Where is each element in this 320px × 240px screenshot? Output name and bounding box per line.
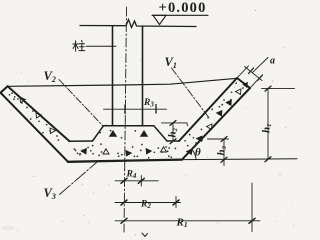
aggregate triangles right slab — [187, 149, 193, 155]
svg-text:a: a — [270, 56, 275, 67]
bottom slab top surface left of pedestal — [70, 140, 93, 142]
level symbol underline — [152, 14, 208, 16]
left slab outer surface — [1, 93, 69, 162]
column right line — [142, 26, 144, 126]
svg-text:θ: θ — [195, 147, 201, 159]
dimension R2 line — [115, 202, 181, 204]
right slab outer surface — [182, 88, 250, 160]
aggregate triangles bottom slab — [81, 149, 87, 155]
R4 right arrow slash — [138, 178, 144, 183]
dimension h1 line — [267, 89, 269, 160]
leader V1 (dash-dot) — [172, 68, 210, 119]
svg-text:R2: R2 — [140, 200, 151, 211]
dimension h2 extension line — [162, 123, 188, 126]
svg-text:+0.000: +0.000 — [159, 0, 207, 16]
level symbol triangle — [153, 15, 166, 24]
dimension R4 line — [115, 180, 158, 182]
bottom slab bottom line (bold) — [68, 160, 182, 162]
label 柱 (hand drawn glyph) — [73, 40, 85, 51]
aggregate triangles pedestal — [110, 131, 117, 137]
concrete stipple dots — [9, 82, 248, 158]
leader to a — [253, 58, 268, 73]
R1 right slash — [249, 218, 255, 223]
aggregate triangles left slab — [20, 97, 26, 103]
right slab inner surface — [179, 78, 237, 141]
R2 right extension — [175, 197, 177, 208]
left slab inner surface — [8, 86, 70, 141]
bottom extension line to right — [182, 158, 297, 161]
dimension R1 line — [115, 220, 260, 222]
dimension h3 line — [223, 139, 225, 166]
h3 bottom slash — [221, 157, 227, 162]
dimension R3 line — [104, 108, 167, 110]
R2 left slash — [121, 200, 127, 205]
dimension h1 top extension line — [262, 88, 295, 90]
small mark bottom center — [142, 233, 148, 237]
dimension h3 extension line — [208, 138, 229, 140]
pedestal — [93, 126, 168, 141]
left slab end face — [1, 86, 8, 92]
ground line with break zigzag — [80, 20, 196, 28]
a ticks — [249, 68, 254, 74]
R3 right tick — [155, 105, 157, 114]
dimension a line — [245, 67, 263, 81]
right slab end face — [237, 78, 250, 88]
R4 left arrow slash — [121, 178, 127, 183]
leader V2 (dash-dot) — [59, 80, 103, 127]
h1 top slash — [265, 86, 271, 91]
leader line for 柱 — [86, 45, 116, 47]
h2 bottom slash — [170, 139, 176, 144]
bottom slab top surface right of pedestal — [167, 140, 179, 142]
h1 bottom slash — [265, 157, 271, 162]
h3 top slash — [221, 137, 227, 142]
column left line — [112, 26, 114, 126]
svg-text:R4: R4 — [126, 170, 137, 181]
top rim line of shell — [8, 78, 237, 86]
svg-text:R3: R3 — [143, 98, 154, 109]
R4 right extension — [140, 176, 142, 187]
R1 left slash — [121, 218, 127, 223]
dimension a extension lines — [237, 66, 249, 78]
R2 right slash — [173, 200, 179, 205]
column centerline (dash-dot vertical) — [124, 7, 127, 232]
theta arc — [192, 150, 196, 160]
R3 left tick — [124, 105, 126, 114]
h2 top slash — [170, 120, 176, 125]
R1 right extension — [251, 183, 253, 232]
dimension h2 line — [172, 123, 174, 141]
leader V3 — [60, 163, 97, 195]
